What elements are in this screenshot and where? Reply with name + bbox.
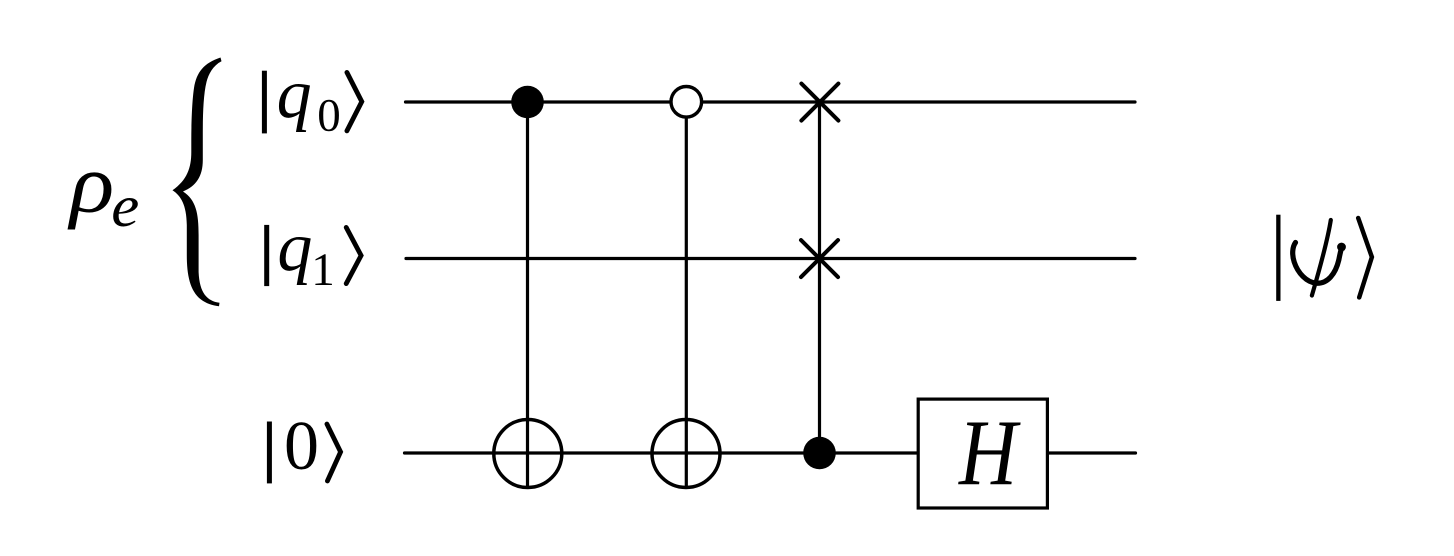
CNOT1 vertical connector: [526, 102, 529, 487]
svg-text:0: 0: [284, 408, 319, 485]
H gate box: [918, 399, 1047, 508]
wire q1: [406, 257, 1135, 260]
svg-text:q: q: [277, 56, 312, 133]
svg-text:0: 0: [317, 90, 341, 142]
CNOT1 target on ancilla: [494, 420, 562, 488]
label ket q1: [264, 209, 361, 296]
CNOT2 open control on q0: [671, 87, 702, 118]
CSWAP control dot on ancilla: [803, 437, 836, 470]
svg-text:1: 1: [311, 244, 335, 296]
svg-text:H: H: [957, 401, 1021, 505]
CNOT1 control dot on q0: [511, 86, 544, 119]
svg-text:e: e: [111, 175, 139, 240]
CNOT2 target on ancilla: [652, 420, 720, 488]
psi bowl: [1293, 243, 1343, 284]
wire q0: [406, 100, 1136, 103]
psi diagonal stroke: [1312, 220, 1331, 296]
CNOT2 vertical connector: [685, 116, 688, 487]
CSWAP cross on q0: [801, 84, 838, 121]
wire ancilla left segment: [405, 451, 918, 454]
label ket 0: [267, 408, 341, 485]
wire ancilla right segment: [1048, 451, 1136, 454]
brace grouping q0,q1: [173, 58, 222, 307]
label ket q0: [262, 56, 362, 141]
label ket psi: [1276, 215, 1372, 301]
rangle of psi: [1358, 218, 1372, 297]
svg-text:q: q: [277, 209, 312, 286]
svg-text:ρ: ρ: [67, 137, 114, 230]
CSWAP vertical connector: [818, 102, 821, 453]
label rho_e: [67, 137, 139, 239]
psi blob: [1337, 243, 1346, 252]
CSWAP cross on q1: [801, 240, 838, 277]
